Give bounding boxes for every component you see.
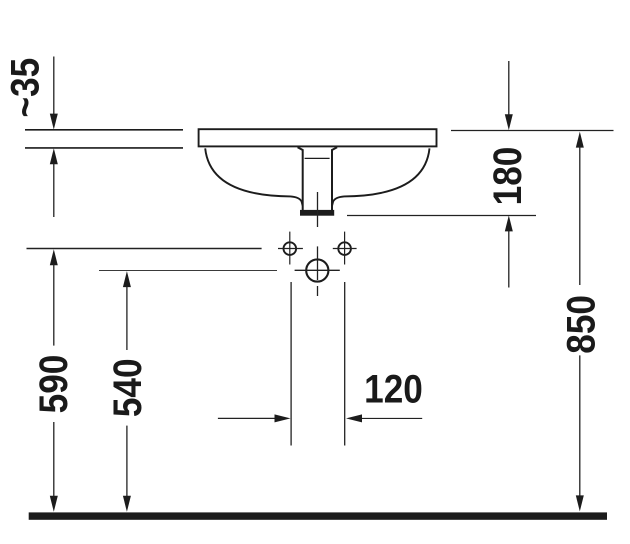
extension line countertop right <box>451 130 614 132</box>
drain outlet thick bottom <box>300 210 334 216</box>
dimension 120 <box>218 282 423 446</box>
level line 590 <box>27 248 262 250</box>
left faucet hole <box>278 232 303 265</box>
svg-text:180: 180 <box>485 147 530 206</box>
svg-text:120: 120 <box>364 366 423 411</box>
drain channel right wall <box>332 147 337 211</box>
svg-text:~35: ~35 <box>2 58 47 118</box>
svg-text:850: 850 <box>558 295 603 354</box>
dimension ~35 <box>2 57 57 218</box>
drain centerline <box>317 192 319 227</box>
basin rim <box>199 129 437 146</box>
dimension 180 <box>485 61 530 288</box>
svg-text:590: 590 <box>31 355 76 414</box>
countertop section left (two lines) <box>25 130 183 148</box>
level line 180 (drain bottom) <box>347 215 536 217</box>
dimension 850 <box>558 132 603 512</box>
center tap hole <box>295 246 340 296</box>
drain channel left wall <box>298 147 303 211</box>
bowl left profile <box>205 148 302 205</box>
right faucet hole <box>333 232 357 265</box>
floor line <box>29 512 607 519</box>
level line 540 <box>99 270 277 272</box>
dimension 590 <box>31 249 76 512</box>
bowl right profile <box>332 148 429 205</box>
inner stem line <box>305 157 330 159</box>
svg-text:540: 540 <box>105 358 150 417</box>
dimension 540 <box>105 271 150 512</box>
